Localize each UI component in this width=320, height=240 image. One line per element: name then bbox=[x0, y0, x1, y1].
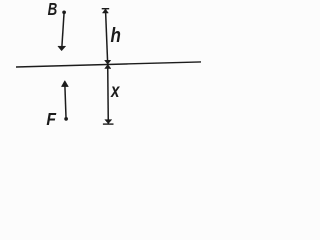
wire: horizontal surface line bbox=[16, 62, 201, 67]
arrowhead up on F arrow bbox=[61, 81, 68, 87]
arrowhead down at bottom cap bbox=[105, 120, 112, 124]
node bottom cap bar bbox=[103, 123, 114, 125]
label x bbox=[110, 79, 120, 101]
svg-text:h: h bbox=[111, 24, 121, 47]
wire: arrow from F upward bbox=[65, 86, 66, 117]
arrowhead down on B arrow bbox=[58, 46, 66, 51]
wire: vertical dimension line, x segment bbox=[107, 64, 110, 123]
arrowhead down at middle (upper) bbox=[105, 60, 111, 64]
arrowhead up at middle (lower) bbox=[105, 65, 111, 69]
wire: arrow from B downward bbox=[62, 14, 64, 47]
node F dot bbox=[64, 117, 68, 121]
svg-text:x: x bbox=[110, 79, 120, 101]
node B dot bbox=[62, 10, 66, 14]
svg-text:F: F bbox=[46, 109, 56, 129]
wire: vertical dimension line, h segment bbox=[106, 9, 108, 64]
label h bbox=[111, 24, 121, 47]
label F bbox=[46, 109, 56, 129]
arrowhead up at top cap bbox=[102, 9, 108, 13]
node top cap bar bbox=[102, 8, 110, 10]
label B bbox=[48, 0, 58, 19]
svg-text:B: B bbox=[48, 0, 58, 19]
